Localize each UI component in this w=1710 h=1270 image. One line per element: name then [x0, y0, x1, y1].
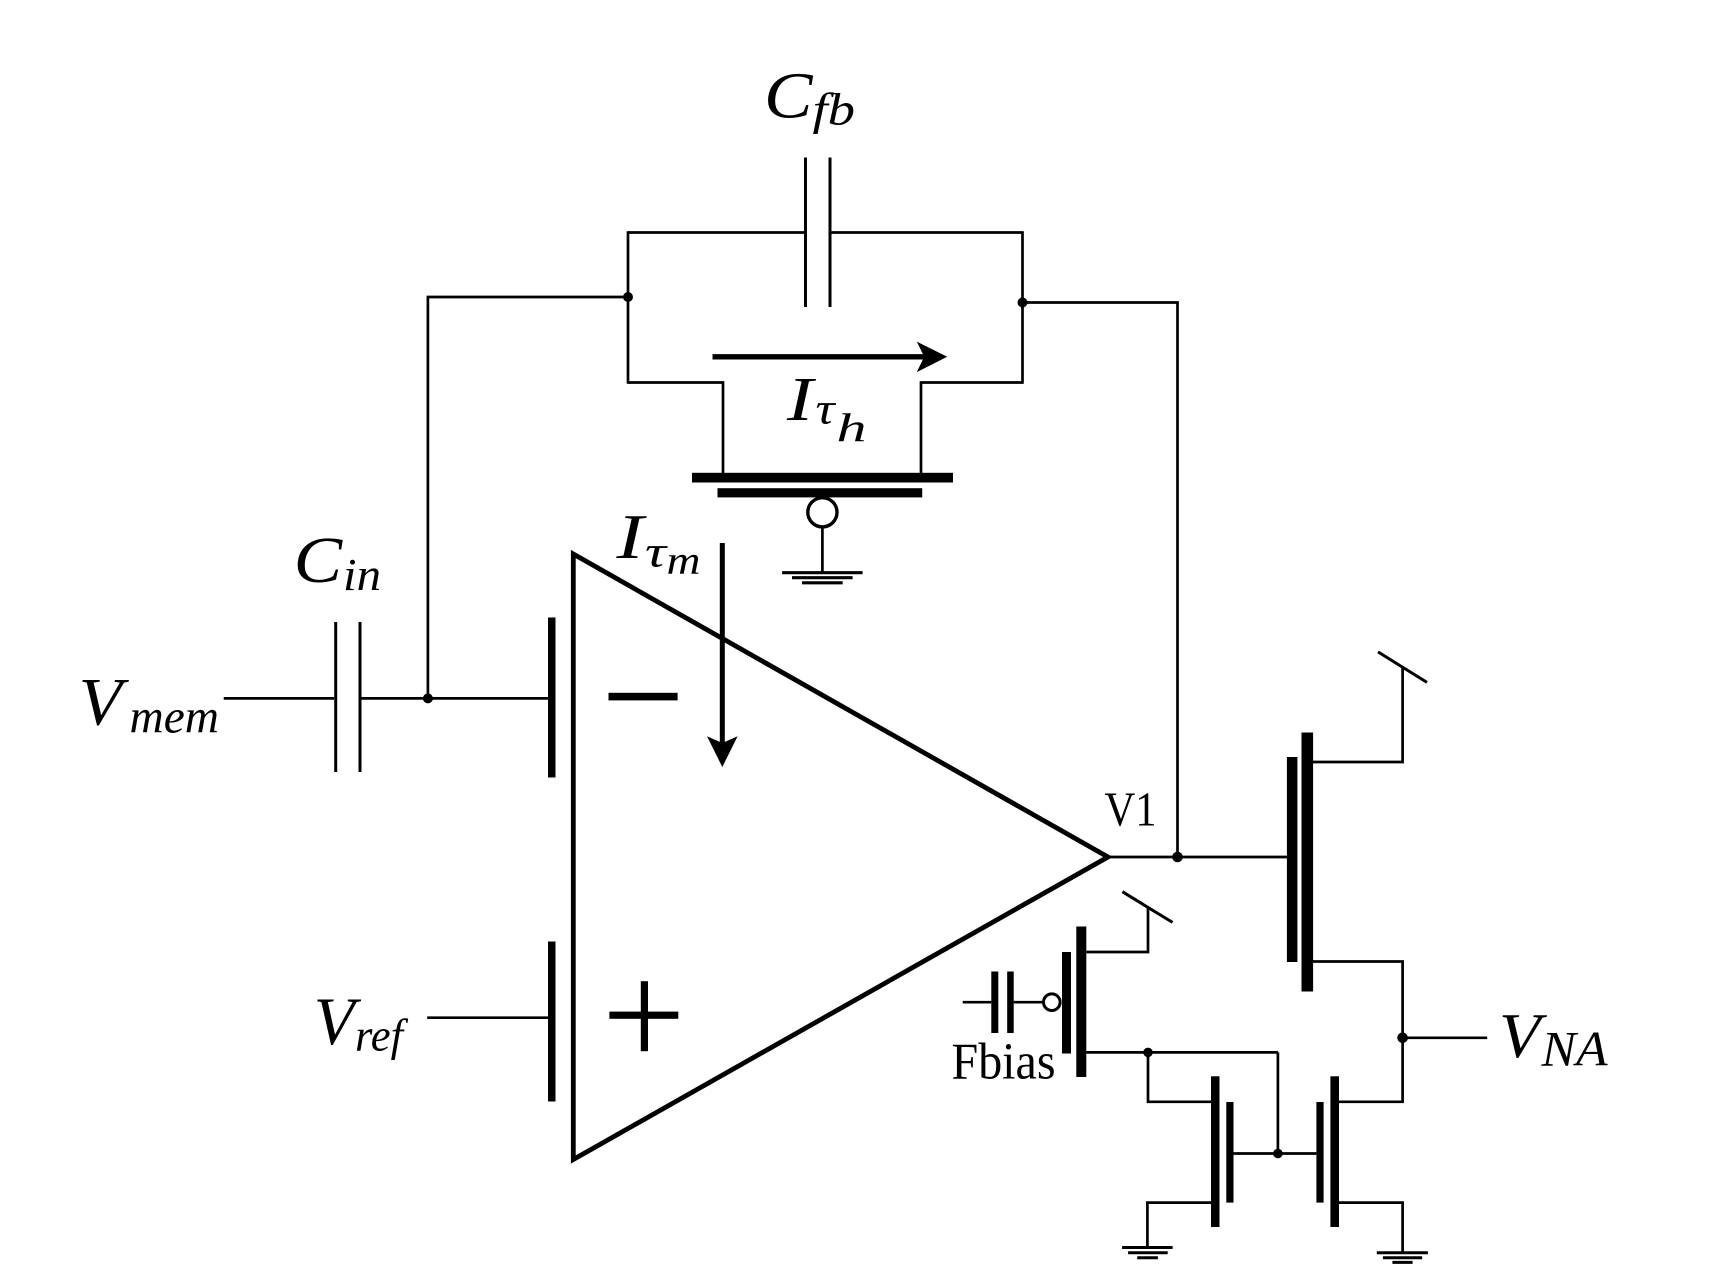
svg-text:C: C — [764, 60, 814, 133]
ground under MOS-cap — [782, 573, 863, 583]
label I_tau_m — [615, 501, 700, 583]
wire Fbias lead — [963, 1001, 992, 1004]
node V1 junction — [1172, 852, 1183, 863]
current arrow I_tau_m — [707, 543, 738, 767]
transistor M4 gate bar — [1316, 1102, 1323, 1203]
wire M1 drain to supply — [1313, 668, 1403, 763]
svg-text:fb: fb — [813, 84, 856, 135]
transistor M3 gate bar — [1226, 1102, 1233, 1203]
wire V_mem lead — [224, 697, 334, 700]
transistor M2 channel bar — [1076, 927, 1086, 1078]
svg-text:in: in — [343, 549, 381, 600]
node junction right box — [1018, 298, 1028, 308]
wire M4 source to ground — [1339, 1203, 1403, 1252]
wire M1 source to V_NA node — [1313, 962, 1403, 1038]
svg-text:I: I — [615, 501, 647, 572]
label V_mem — [79, 664, 219, 744]
ground M3 — [1122, 1248, 1173, 1258]
wire M4 drain to V_NA node — [1339, 1038, 1403, 1102]
svg-text:Fbias: Fbias — [952, 1034, 1056, 1091]
ground M4 — [1377, 1253, 1428, 1263]
transistor M4 channel bar — [1330, 1076, 1339, 1227]
node gate rail junction — [1273, 1149, 1283, 1159]
wire from input node up to box — [428, 297, 628, 698]
transistor MOS-cap top plate — [692, 473, 953, 483]
wire step right — [921, 383, 1023, 475]
label V_ref — [314, 983, 409, 1061]
wire bias node down to gates — [1277, 1052, 1280, 1153]
plus input gate bar — [548, 942, 556, 1102]
wire op-amp output to M1 gate — [1108, 856, 1287, 859]
wire cap to bubble — [1014, 1001, 1043, 1004]
node M2 source junction — [1143, 1048, 1153, 1058]
op-amp U1 triangle — [573, 554, 1108, 1160]
current arrow I_tau_h — [713, 342, 948, 373]
svg-text:mem: mem — [130, 691, 220, 744]
svg-text:m: m — [667, 538, 701, 583]
transistor M2 gate bar — [1062, 952, 1071, 1054]
transistor M1 channel bar — [1302, 733, 1314, 992]
pmos bubble M2 — [1044, 994, 1061, 1011]
wire step left — [628, 383, 723, 475]
wire C_fb to top right — [830, 231, 1023, 234]
capacitor Fbias floating gate — [991, 972, 1013, 1034]
label C_fb — [764, 60, 855, 135]
svg-text:τ: τ — [816, 385, 838, 434]
node input junction — [423, 693, 433, 703]
bulk contact circle — [808, 498, 837, 527]
wire right box to V1 riser — [1023, 303, 1178, 858]
capacitor C_in — [336, 622, 360, 772]
minus symbol — [609, 693, 678, 701]
node V_NA junction — [1397, 1033, 1408, 1044]
capacitor C_fb — [806, 158, 831, 308]
wire M2 drain to supply — [1086, 907, 1148, 952]
svg-text:V1: V1 — [1105, 782, 1157, 837]
wire gate rail M3 to M4 — [1234, 1152, 1317, 1155]
wire M2 source — [1086, 1051, 1278, 1054]
wire top left to C_fb — [628, 231, 805, 234]
wire V_NA lead — [1403, 1036, 1488, 1039]
transistor MOS-cap gate plate — [718, 488, 923, 497]
svg-text:NA: NA — [1540, 1020, 1607, 1076]
label V_NA — [1499, 1000, 1608, 1076]
wire right box vertical — [1021, 231, 1024, 384]
supply tick M1 — [1378, 652, 1427, 683]
svg-text:τ: τ — [645, 528, 669, 577]
wire left box vertical — [627, 231, 630, 384]
svg-text:ref: ref — [355, 1010, 409, 1061]
label I_tau_h — [786, 366, 867, 450]
supply tick M2 — [1122, 892, 1172, 923]
svg-text:I: I — [786, 366, 817, 434]
wire M3 source to ground — [1147, 1203, 1211, 1247]
plus symbol — [609, 981, 678, 1051]
wire V_ref to plus input — [427, 1016, 548, 1019]
transistor M3 channel bar — [1211, 1076, 1220, 1227]
minus input gate bar — [548, 618, 556, 778]
svg-text:h: h — [837, 405, 867, 450]
label C_in — [294, 524, 381, 600]
svg-text:C: C — [294, 524, 344, 597]
wire circle to ground — [821, 527, 824, 573]
wire M2 source to M3 drain — [1148, 1052, 1211, 1101]
node junction left box — [623, 292, 633, 302]
transistor M1 gate bar — [1287, 757, 1298, 962]
wire C_in to minus input — [362, 697, 549, 700]
